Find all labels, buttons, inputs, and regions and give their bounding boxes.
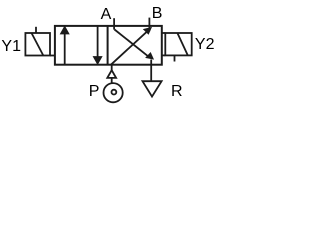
svg-text:P: P [89,83,100,100]
svg-text:R: R [171,83,183,100]
svg-text:B: B [152,5,163,22]
svg-text:A: A [101,6,112,23]
svg-text:Y1: Y1 [1,38,21,55]
svg-text:Y2: Y2 [195,36,215,53]
